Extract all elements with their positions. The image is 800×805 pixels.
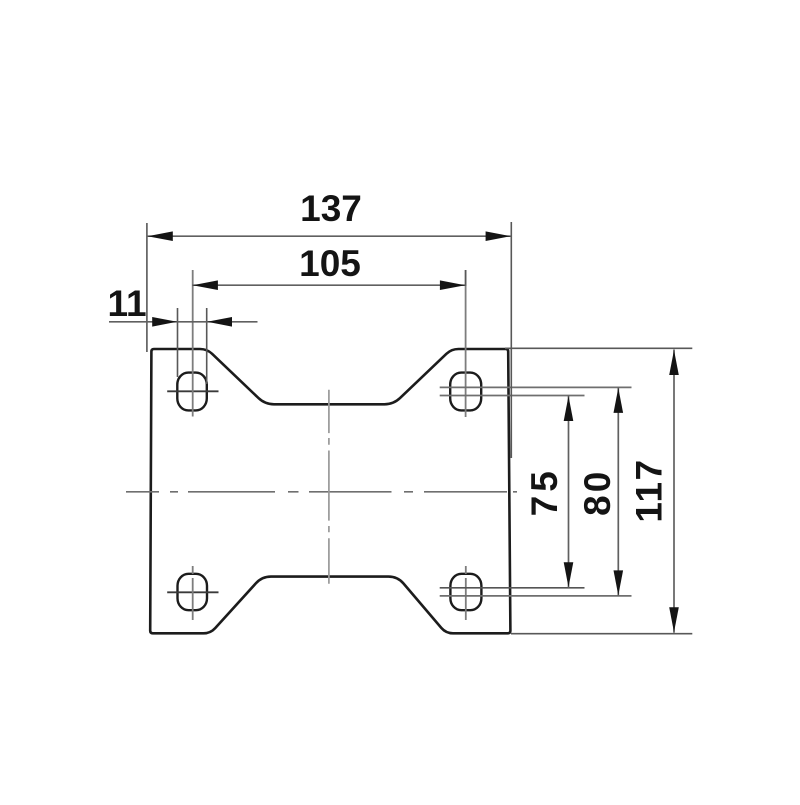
dimension 80 arrow bottom xyxy=(614,570,624,595)
dimension 11 line xyxy=(109,321,258,323)
dimension 105 arrow right xyxy=(440,280,465,290)
dimension 117 line xyxy=(673,350,675,633)
svg-text:80: 80 xyxy=(577,469,618,516)
centerline vertical top-left hole / 105 ext left xyxy=(192,270,194,417)
svg-text:75: 75 xyxy=(524,467,565,516)
hole bottom-right xyxy=(450,574,481,610)
svg-text:137: 137 xyxy=(300,188,362,229)
dimension 75 arrow top xyxy=(564,396,574,421)
dimension 117 arrow top xyxy=(669,350,679,375)
extension line 80 bottom (through bottom-right hole) xyxy=(440,595,632,597)
svg-text:105: 105 xyxy=(299,243,361,284)
plate outline xyxy=(150,349,510,633)
dimension 75 line xyxy=(568,396,570,588)
dimension 117 extension line bottom xyxy=(511,633,692,635)
hole top-right xyxy=(450,373,481,411)
dimension 117 extension line top xyxy=(505,347,692,349)
dimension 137 arrow right xyxy=(486,231,511,241)
dimension 11 extension line left xyxy=(177,308,179,377)
dimension 137 extension line right xyxy=(510,222,512,458)
hole bottom-left xyxy=(178,574,208,610)
dimension 117 arrow bottom xyxy=(669,607,679,632)
dimension 105 arrow left xyxy=(193,280,218,290)
extension line 80 top (through top-right hole) xyxy=(440,386,632,388)
dimension 80 line xyxy=(617,387,619,596)
centerline vertical top-right hole / 105 ext right xyxy=(465,270,467,417)
hole top-left xyxy=(177,373,207,411)
horizontal centerline (dash-dot) xyxy=(126,491,517,493)
dimension 105 line xyxy=(192,284,465,286)
extension line 75 bottom (through bottom-right hole) xyxy=(440,587,585,589)
crosshair horizontal bottom-left hole xyxy=(167,591,218,593)
vertical centerline (dash-dot) xyxy=(328,390,330,584)
svg-text:117: 117 xyxy=(629,458,670,522)
dimension 137 arrow left xyxy=(148,231,173,241)
crosshair horizontal top-left hole xyxy=(167,390,218,392)
centerline vertical bottom-left hole xyxy=(192,566,194,620)
dimension 105 extension line right upper part xyxy=(465,270,467,286)
dimension 137 line xyxy=(147,235,511,237)
dimension 11 arrow left (points right at hole left edge) xyxy=(152,317,177,327)
centerline vertical bottom-right hole xyxy=(465,566,467,620)
dimension 75 arrow bottom xyxy=(564,562,574,587)
dimension 137 extension line left xyxy=(146,223,148,352)
svg-text:11: 11 xyxy=(107,283,146,324)
dimension 80 arrow top xyxy=(614,388,624,413)
dimension 11 arrow right (points left at hole right edge) xyxy=(207,317,232,327)
dimension 11 extension line right xyxy=(206,308,208,384)
extension line 75 top (through top-right hole) xyxy=(440,395,585,397)
